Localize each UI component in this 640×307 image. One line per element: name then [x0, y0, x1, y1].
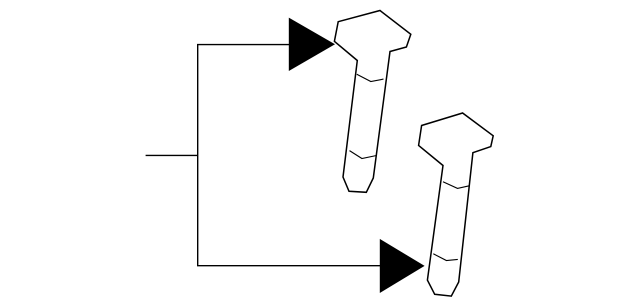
- bolt 1 upper break line: [357, 74, 384, 81]
- bolt 1 outline: [334, 11, 410, 193]
- wire: bottom branch: [197, 265, 381, 267]
- wire: top branch: [197, 44, 290, 46]
- bolt 1 lower break line: [350, 151, 377, 159]
- wire: left stub: [146, 154, 198, 156]
- arrowhead 1 (top): [289, 18, 335, 71]
- bolt 2 lower break line: [433, 254, 458, 261]
- bolt 2 outline: [419, 113, 494, 296]
- bolt 2 upper break line: [443, 182, 469, 189]
- wire: vertical trunk: [197, 45, 199, 266]
- arrowhead 2 (bottom): [380, 239, 425, 293]
